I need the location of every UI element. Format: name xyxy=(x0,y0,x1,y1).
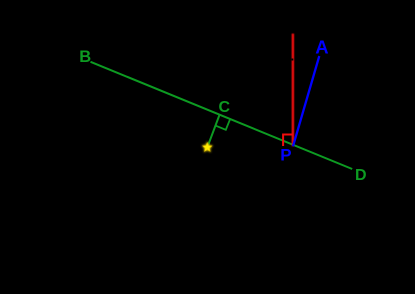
svg-text:B: B xyxy=(79,48,91,66)
node: right-angle marker at P (red square) xyxy=(283,135,292,147)
wire: green line B-D xyxy=(91,62,353,169)
wire: blue segment A-P xyxy=(293,56,319,146)
wire: green perpendicular segment from C to star point xyxy=(207,115,219,148)
svg-text:C: C xyxy=(219,99,231,116)
svg-text:P: P xyxy=(280,146,291,165)
node: yellow star point xyxy=(203,143,212,152)
svg-text:D: D xyxy=(355,167,367,184)
node: right-angle marker at C (green square) xyxy=(215,119,230,130)
node: small notch on red line xyxy=(291,59,293,61)
svg-text:A: A xyxy=(315,36,328,57)
wire: red vertical line through P xyxy=(292,34,294,147)
